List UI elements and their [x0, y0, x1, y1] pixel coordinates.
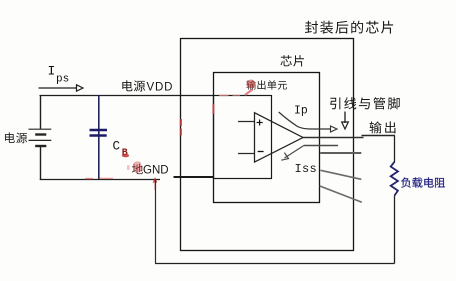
bond diagonal pin 2 [320, 186, 362, 202]
wire non-inverting input [238, 121, 255, 123]
wire output from op-amp [303, 136, 395, 138]
wire Ip bond with arrow [279, 112, 337, 132]
box output unit 输出单元 [214, 96, 272, 179]
op-amp plus input marker [257, 120, 263, 126]
svg-text:I: I [48, 64, 56, 79]
label 引线与管脚 [330, 97, 400, 109]
battery BT1 positive lead [40, 95, 42, 129]
svg-text:Ip: Ip [294, 104, 308, 117]
resistor RL load zigzag [391, 162, 398, 196]
label CB [113, 140, 130, 160]
label 电源VDD net name [122, 80, 173, 93]
wire ground drop [155, 179, 157, 263]
label 芯片 [280, 55, 304, 66]
capacitor CB lead [98, 95, 100, 180]
arrow Ips current direction [39, 85, 84, 91]
capacitor CB plates [90, 130, 108, 136]
box outer package 封装后的芯片 [181, 39, 354, 251]
wire GND rail [40, 179, 160, 181]
op-amp U1 [255, 113, 304, 162]
label 地GND net name [127, 161, 169, 176]
wire VDD rail [40, 95, 214, 97]
pin stub [320, 152, 361, 154]
red annotation dashes on GND rail [85, 177, 113, 179]
svg-text:GND: GND [143, 165, 169, 177]
battery BT1 plates [29, 129, 52, 146]
wire load to bottom return [394, 196, 396, 264]
op-amp minus input marker [258, 151, 264, 153]
wire output to load [394, 136, 396, 163]
svg-text:ps: ps [56, 74, 69, 86]
wire GND entry segment into package [174, 176, 214, 178]
label 负载电阻 [401, 177, 445, 187]
svg-text:C: C [113, 140, 121, 154]
label 输出单元 [246, 80, 287, 89]
svg-text:B: B [122, 148, 128, 159]
red ticks on package box left edge [180, 119, 182, 136]
svg-text:VDD: VDD [147, 82, 174, 94]
label 输出 [370, 121, 396, 133]
wire inverting input [238, 153, 255, 155]
arrow lead pointer down [342, 112, 349, 130]
red junction arrow at ground drop [153, 177, 158, 190]
wire ISS bond [281, 146, 338, 161]
battery BT1 negative lead [40, 147, 42, 180]
label 封装后的芯片 [305, 21, 393, 34]
label 电源 battery [5, 132, 27, 143]
red tick on chip box left edge [212, 104, 214, 114]
svg-text:Iss: Iss [295, 162, 318, 176]
wire bottom return [155, 263, 395, 265]
bond diagonal pin 1 [321, 170, 362, 179]
label Iss [295, 162, 318, 176]
box chip 芯片 [214, 73, 320, 203]
label Ip [294, 104, 308, 117]
label I_ps [48, 64, 70, 86]
red annotation dashes on VDD at box [219, 94, 240, 96]
red annotation on 输出单元 [245, 80, 256, 96]
